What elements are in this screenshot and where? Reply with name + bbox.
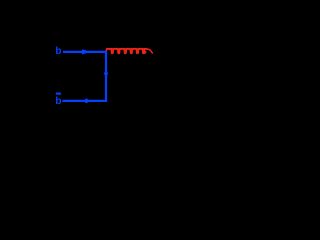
wire top [63, 51, 107, 53]
wire vertical [105, 51, 107, 102]
svg-text:b: b [55, 46, 61, 57]
node b-bar [55, 93, 61, 107]
wire bottom [62, 100, 107, 102]
arrow down (current direction) [104, 73, 109, 78]
svg-text:b: b [55, 96, 61, 107]
arrow left (current out) [83, 98, 87, 103]
coil winding L (red) [106, 48, 153, 54]
arrow right (current into coil) [82, 49, 87, 54]
